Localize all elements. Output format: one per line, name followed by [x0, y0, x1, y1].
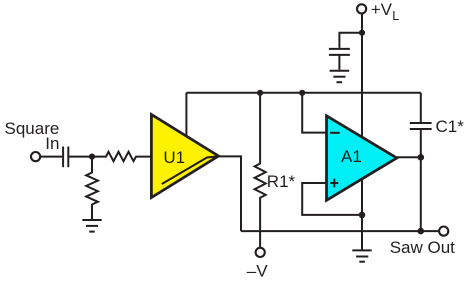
node A1 plus / ground [359, 212, 366, 219]
capacitor Cin plate left [62, 147, 64, 168]
wire input terminal to capacitor [40, 156, 62, 158]
capacitor bypass plate bottom [329, 54, 350, 56]
svg-text:A1: A1 [341, 147, 362, 166]
capacitor bypass plate top [329, 48, 350, 50]
svg-text:R1*: R1* [267, 172, 296, 191]
wire U1 feedback vertical [185, 93, 187, 138]
node top line / A1 inverting [299, 90, 305, 96]
resistor R2 (input shunt to ground) [86, 157, 98, 220]
terminal Square In [31, 152, 40, 161]
op-amp A1 [327, 116, 397, 201]
svg-text:Saw Out: Saw Out [390, 238, 455, 257]
svg-text:L: L [392, 9, 399, 23]
wire C1 top branch [420, 93, 422, 122]
wire A1 inverting input branch [302, 93, 326, 133]
svg-text:+V: +V [371, 0, 393, 19]
svg-text:U1: U1 [163, 148, 185, 167]
terminal +VL [357, 4, 366, 13]
wire U1 output to bottom rail [219, 156, 242, 231]
capacitor C1 plate top [410, 122, 432, 124]
wire R1 branch from top line [255, 93, 266, 248]
op-amp U1 (ramp generator) [151, 115, 218, 198]
wire bypass cap to ground [338, 55, 340, 70]
plus sign A1 [330, 182, 338, 184]
node A1 output / C1 [418, 154, 425, 161]
wire top feedback line [186, 92, 420, 94]
slope symbol inside U1 [162, 156, 219, 184]
svg-text:In: In [45, 134, 59, 153]
ground (A1 reference) [352, 249, 371, 251]
resistor Rseries (node A to U1 input) [92, 152, 151, 161]
wire bottom rail [241, 230, 439, 232]
wire A1 output [397, 156, 421, 158]
terminal -V [256, 248, 265, 257]
ground (input) [82, 219, 101, 221]
ground (bypass) [330, 70, 350, 72]
minus sign A1 [330, 132, 340, 134]
wire C1 bottom to output node [420, 129, 422, 157]
terminal Saw Out [439, 227, 448, 236]
wire bypass capacitor branch [339, 33, 362, 48]
node saw out junction [418, 228, 425, 235]
wire A1 non-inverting input branch [302, 183, 362, 215]
node +VL junction [359, 30, 365, 36]
node input junction [89, 154, 95, 160]
capacitor C1 plate bottom [410, 128, 432, 130]
svg-text:C1*: C1* [436, 117, 465, 136]
wire capacitor to node A [68, 156, 92, 158]
wire +VL vertical rail (passes behind A1) [361, 14, 363, 251]
node top line / R1 [257, 90, 263, 96]
capacitor Cin plate right [67, 147, 69, 168]
wire output node down to rail [420, 157, 422, 231]
svg-text:–V: –V [247, 262, 268, 281]
